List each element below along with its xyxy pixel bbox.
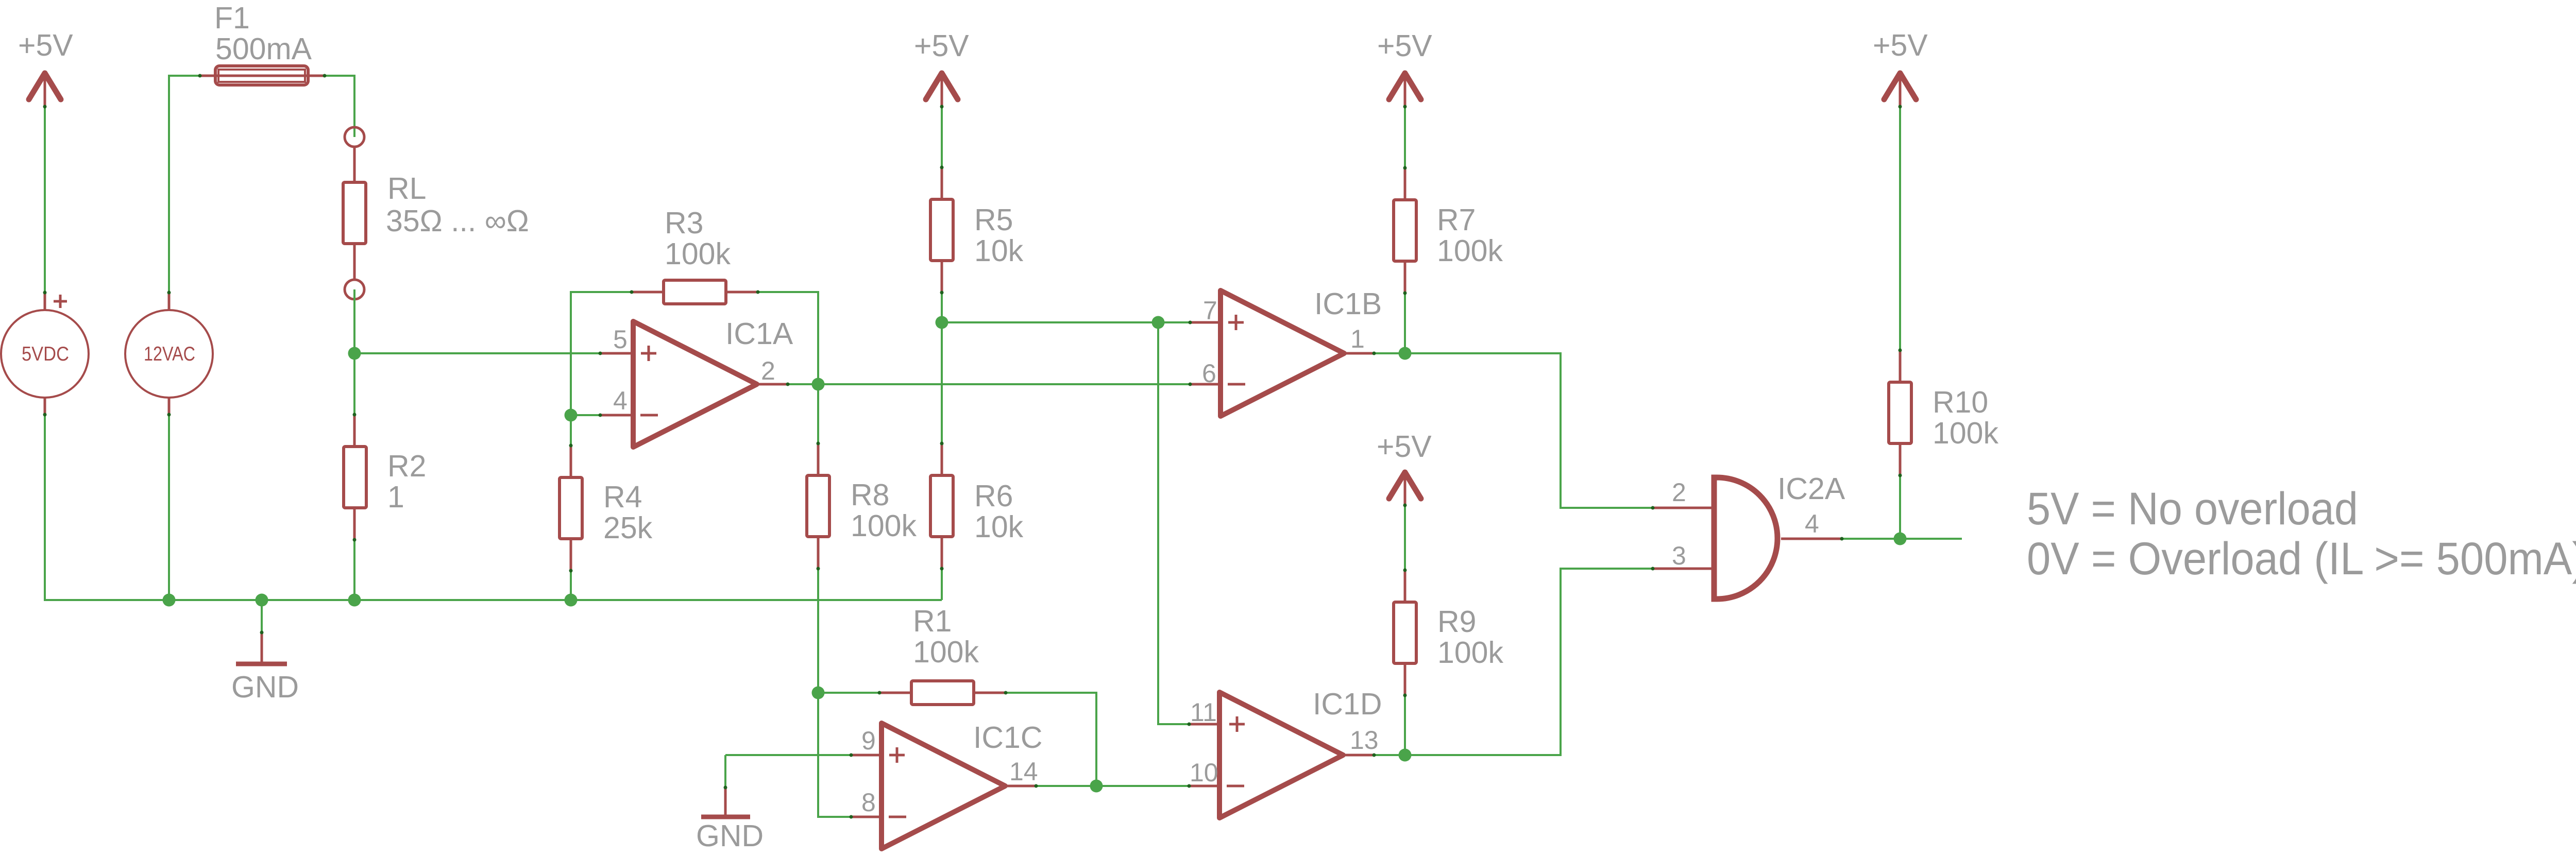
wire bus to GND symbol <box>261 600 263 632</box>
voltage source 5VDC <box>1 293 89 415</box>
voltage source 12VAC <box>125 293 213 415</box>
power flag +5V above R7 <box>1377 29 1432 106</box>
svg-text:+5V: +5V <box>1377 430 1432 464</box>
terminal circle RL bottom <box>345 280 364 299</box>
svg-text:100k: 100k <box>1933 416 1998 450</box>
terminal circle RL top <box>345 127 364 147</box>
svg-text:7: 7 <box>1203 296 1217 325</box>
wire pin7 node down to IC1D pin 11 <box>1158 322 1189 724</box>
junction R2/bus <box>348 594 361 607</box>
wire IC1B output node to gate pin 2 <box>1405 353 1653 508</box>
svg-text:11: 11 <box>1190 698 1217 727</box>
wire IC1D output node to gate pin 3 <box>1405 569 1653 755</box>
svg-text:9: 9 <box>861 726 876 755</box>
AND gate IC2A <box>1653 472 1845 599</box>
svg-text:+5V: +5V <box>914 29 969 63</box>
wire +5V to R10 <box>1899 107 1901 350</box>
wire IC1C output to node <box>1036 785 1096 787</box>
wire R2 bottom to ground bus <box>353 540 355 600</box>
svg-text:2: 2 <box>1672 478 1686 507</box>
svg-text:F1: F1 <box>214 1 250 35</box>
junction IC1A output node <box>812 378 825 391</box>
resistor R9 <box>1394 570 1503 695</box>
svg-text:5: 5 <box>613 325 628 354</box>
svg-text:R7: R7 <box>1437 203 1476 237</box>
svg-text:GND: GND <box>696 819 764 853</box>
resistor R7 <box>1394 168 1503 293</box>
op-amp IC1D <box>1189 687 1382 818</box>
op-amp IC1C <box>851 721 1042 849</box>
ground bus wire <box>45 415 942 600</box>
svg-text:13: 13 <box>1350 726 1379 755</box>
resistor R5 <box>930 167 1024 293</box>
resistor R1 <box>879 604 1006 705</box>
wire node B to pin7 node <box>942 321 1158 323</box>
wire R5 bottom to node B <box>941 293 943 322</box>
svg-text:10k: 10k <box>974 510 1024 544</box>
wire output node down to R8 <box>817 384 819 443</box>
wire R10 bottom to output node <box>1899 475 1901 539</box>
wire R4 bottom to bus <box>570 571 572 600</box>
junction node pin4/R3/R4 <box>565 409 578 422</box>
svg-text:1: 1 <box>1350 324 1365 353</box>
svg-text:4: 4 <box>1805 509 1819 538</box>
junction output node <box>1894 533 1907 545</box>
svg-text:14: 14 <box>1009 757 1038 786</box>
fuse F1 500mA <box>200 1 325 85</box>
svg-text:500mA: 500mA <box>215 32 312 66</box>
svg-text:RL: RL <box>387 172 426 206</box>
svg-text:+5V: +5V <box>1873 28 1928 62</box>
junction R8/R1/pin8 node <box>812 687 825 699</box>
svg-text:R3: R3 <box>665 206 703 240</box>
power flag +5V above R10 <box>1873 28 1928 106</box>
svg-text:5V = No overload: 5V = No overload <box>2027 483 2358 534</box>
svg-text:12VAC: 12VAC <box>144 343 195 365</box>
wire R6 bottom to bus end <box>941 569 943 600</box>
junction node A <box>348 347 361 360</box>
wire IC1B output to node <box>1374 352 1405 354</box>
svg-text:3: 3 <box>1672 541 1686 570</box>
wire 12VAC top to fuse <box>169 76 200 293</box>
wire +5V to R7 <box>1404 107 1406 168</box>
op-amp IC1A <box>600 317 793 447</box>
svg-text:IC2A: IC2A <box>1777 472 1845 506</box>
wire R3 right to IC1A output node <box>758 292 818 384</box>
svg-text:R8: R8 <box>851 478 889 512</box>
resistor R4 <box>560 446 653 571</box>
svg-text:R6: R6 <box>974 479 1013 513</box>
wire R1 right down to IC1C output node <box>1006 693 1096 786</box>
junction GND/bus <box>256 594 268 607</box>
wire IC1A output to node <box>788 383 818 385</box>
resistor R10 <box>1889 350 1998 475</box>
wire GND stem <box>724 755 726 787</box>
svg-text:100k: 100k <box>851 509 917 543</box>
wire R8 bottom down to pin8/R1 node <box>817 569 819 693</box>
wire output node to IC1B pin 6 <box>818 383 1190 385</box>
load resistor RL <box>343 148 529 279</box>
svg-text:10k: 10k <box>974 234 1024 268</box>
svg-text:IC1A: IC1A <box>725 317 793 351</box>
junction node B <box>936 316 948 329</box>
svg-text:4: 4 <box>613 386 628 415</box>
op-amp IC1B <box>1190 287 1382 416</box>
wire R8 node down to IC1C pin 8 <box>818 693 851 817</box>
svg-text:R9: R9 <box>1437 605 1476 639</box>
svg-text:100k: 100k <box>1437 636 1503 670</box>
wire IC1C output node to IC1D pin 10 <box>1096 785 1189 787</box>
junction IC1B output node <box>1399 347 1412 360</box>
svg-text:R5: R5 <box>974 203 1013 237</box>
svg-text:8: 8 <box>861 788 876 817</box>
svg-text:R1: R1 <box>913 604 952 638</box>
resistor R8 <box>807 443 917 569</box>
power flag +5V (far left) <box>18 28 73 106</box>
wire pin7 node to IC1B pin 7 <box>1158 321 1190 323</box>
wire node A to IC1A pin 5 <box>354 352 600 354</box>
svg-text:+5V: +5V <box>1377 29 1432 63</box>
wire node B down to R6 <box>941 322 943 443</box>
wire GND corner to IC1C pin 9 <box>725 754 851 756</box>
wire +5V to R9 <box>1404 505 1406 570</box>
svg-text:R2: R2 <box>387 449 426 483</box>
junction IC1C output node <box>1090 780 1103 793</box>
wire fuse to RL top terminal <box>325 76 354 137</box>
junction R4/bus <box>565 594 578 607</box>
svg-text:IC1B: IC1B <box>1314 287 1382 321</box>
wire R4 top / pin 4 node / R3 left riser <box>571 292 632 446</box>
svg-text:IC1D: IC1D <box>1313 687 1382 721</box>
wire IC1D output to node <box>1374 754 1405 756</box>
wire gate output to node and out <box>1842 538 1962 540</box>
svg-text:0V = Overload (IL >= 500mA): 0V = Overload (IL >= 500mA) <box>2027 533 2576 584</box>
power flag +5V above R5 <box>914 29 969 106</box>
svg-text:35Ω ... ∞Ω: 35Ω ... ∞Ω <box>386 204 529 238</box>
wire 12VAC bottom to ground bus <box>168 415 170 600</box>
svg-text:100k: 100k <box>1437 234 1503 268</box>
svg-text:GND: GND <box>231 670 299 704</box>
junction pin7 node <box>1152 316 1165 329</box>
resistor R6 <box>930 443 1024 569</box>
ground GND (left) <box>231 632 299 704</box>
junction IC1D output node <box>1399 749 1412 762</box>
svg-text:100k: 100k <box>665 237 731 271</box>
svg-text:5VDC: 5VDC <box>22 343 69 365</box>
ground GND (near IC1C) <box>696 787 764 853</box>
wire R7 bottom to IC1B output node <box>1404 293 1406 353</box>
wire R1 node to R1 left <box>818 692 879 694</box>
svg-text:100k: 100k <box>913 635 979 669</box>
wire RL bottom to node A <box>353 289 355 353</box>
svg-text:R4: R4 <box>603 480 642 514</box>
resistor R3 <box>632 206 758 304</box>
svg-text:10: 10 <box>1190 758 1218 787</box>
pin endpoint dots <box>43 74 1902 819</box>
svg-text:2: 2 <box>761 356 775 385</box>
svg-text:6: 6 <box>1202 359 1216 388</box>
svg-text:+5V: +5V <box>18 28 73 62</box>
resistor R2 <box>344 415 426 540</box>
wire R9 bottom to IC1D output node <box>1404 695 1406 755</box>
wire node A down to R2 <box>353 353 355 415</box>
junction 12VAC/bus <box>163 594 176 607</box>
svg-text:R10: R10 <box>1933 385 1988 419</box>
power flag +5V above R9 <box>1377 430 1432 505</box>
wire +5V rail to 5VDC <box>44 107 46 293</box>
svg-text:1: 1 <box>387 480 404 514</box>
svg-text:IC1C: IC1C <box>973 721 1042 755</box>
svg-text:25k: 25k <box>603 511 653 545</box>
wire +5V to R5 <box>941 107 943 167</box>
